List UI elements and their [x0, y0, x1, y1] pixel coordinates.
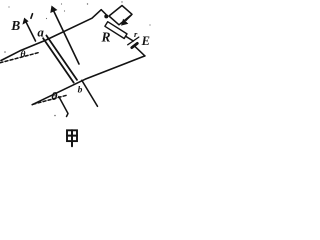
svg-text:E: E [141, 34, 150, 48]
rheostat slider bridge (tilted rectangle outline) [109, 6, 132, 25]
battery E long plate [128, 37, 139, 45]
svg-text:θ: θ [20, 49, 25, 60]
magnetic field arrow B (left) [22, 18, 35, 41]
support leg under rail L2 near theta [59, 97, 68, 117]
wire rail L2 (lower inclined rail) [32, 56, 145, 105]
dashed horizontal reference line at rail L1 foot [0, 52, 40, 63]
wire rail L1 (upper inclined rail) [1, 10, 101, 61]
dashed horizontal reference line at rail L2 foot [33, 95, 67, 104]
wire from battery to rail L2 [135, 46, 145, 56]
wire from resistor R to battery [126, 36, 134, 41]
resistor R body (tilted rectangle) [105, 22, 127, 39]
support leg under rail L2 near b [82, 80, 98, 106]
battery E short thick plate [132, 43, 138, 47]
rheostat slider arrow [121, 15, 131, 26]
caption glyph jia (drawn strokes) [67, 130, 77, 146]
conducting rod ab (double line) [43, 36, 77, 83]
svg-text:b: b [78, 85, 83, 95]
junction dot at rheostat input [104, 14, 108, 18]
small tick mark near B arrow [31, 14, 33, 19]
svg-text:B: B [10, 18, 20, 33]
svg-text:θ: θ [51, 89, 58, 103]
magnetic field arrow (right, unlabeled) [50, 6, 79, 65]
wire from rail L1 to rheostat [101, 10, 107, 16]
svg-text:R: R [101, 29, 111, 44]
